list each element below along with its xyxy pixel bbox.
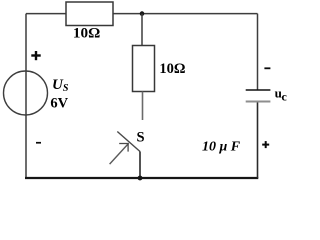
resistor R2 body (middle 10 ohm) [133, 46, 155, 92]
wire: top horizontal net [26, 13, 258, 15]
switch S fixed lead to bottom net [139, 152, 141, 179]
capacitor C top plate [246, 89, 271, 91]
svg-text:uc: uc [275, 85, 288, 103]
wire: middle branch from top node to R2 [141, 14, 143, 46]
capacitor polarity minus sign (right) [264, 67, 270, 69]
svg-text:10Ω: 10Ω [73, 25, 100, 42]
wire: right vertical branch (below capacitor) [257, 103, 259, 179]
source polarity minus sign (left) [36, 142, 41, 144]
wire: stub from R2 down to switch gap [142, 92, 144, 121]
wire: right vertical branch (above capacitor) [257, 14, 259, 90]
switch arrow barb (vertical) [127, 144, 129, 152]
voltage source US circle [4, 71, 48, 115]
switch closing-arrow shaft [110, 143, 129, 164]
svg-text:US: US [52, 77, 69, 94]
switch arrow barb (horizontal) [119, 143, 129, 145]
wire: bottom horizontal net [25, 177, 258, 179]
resistor R1 body (top 10 ohm) [66, 2, 113, 26]
svg-text:10 μ F: 10 μ F [202, 139, 241, 154]
switch S blade (open) [117, 132, 140, 152]
capacitor C bottom plate (gray) [246, 101, 271, 103]
capacitor polarity plus sign (right) [262, 141, 269, 148]
source polarity plus sign (left) [31, 51, 40, 60]
svg-text:S: S [137, 129, 145, 145]
wire: left vertical branch [25, 14, 27, 178]
node junction dot at top net [140, 11, 145, 16]
svg-text:6V: 6V [50, 96, 68, 112]
node junction dot at bottom net [138, 176, 143, 181]
svg-text:10Ω: 10Ω [159, 61, 185, 77]
